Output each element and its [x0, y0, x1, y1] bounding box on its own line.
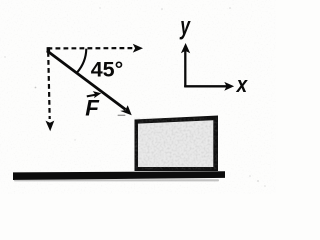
ground surface — [13, 171, 225, 180]
y axis — [181, 43, 190, 87]
svg-text:F: F — [85, 96, 100, 121]
wire: vertical dashed line with arrow — [46, 52, 55, 131]
block (box) on ground — [135, 116, 219, 172]
label y — [179, 11, 190, 40]
faint scan noise over page — [0, 0, 276, 194]
svg-text:y: y — [179, 11, 190, 40]
svg-text:45°: 45° — [91, 58, 124, 82]
svg-text:x: x — [236, 73, 249, 98]
angle arc — [77, 49, 86, 73]
force vector F (diagonal arrow) — [47, 51, 132, 116]
wire: horizontal dashed reference line with arrow — [48, 44, 144, 53]
x axis — [184, 82, 234, 91]
node: dashed-line corner junction — [47, 47, 51, 53]
ground fuzz — [14, 179, 219, 181]
scan speckles — [4, 7, 266, 187]
label F with vector arrow — [85, 91, 101, 121]
label x — [236, 73, 249, 98]
